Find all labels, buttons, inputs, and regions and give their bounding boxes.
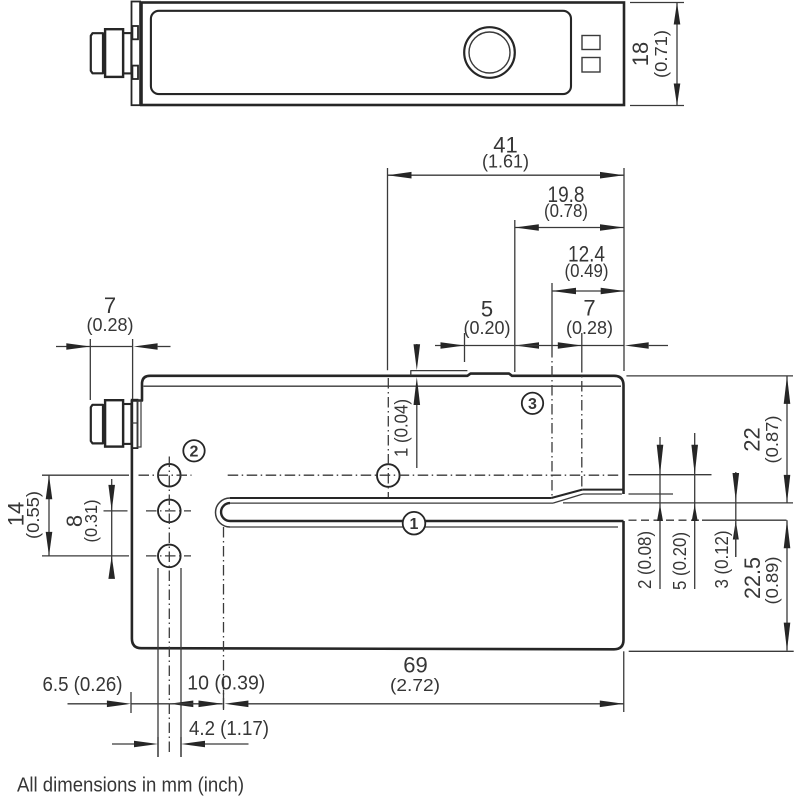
slot bottom extension line right <box>629 519 703 521</box>
dimension 8: line <box>111 479 113 579</box>
slot: inner bottom edge <box>230 520 624 522</box>
dimension 7 top: right outside arrowhead <box>625 342 649 349</box>
extension: body left edge down <box>130 692 132 713</box>
svg-text:(0.55): (0.55) <box>23 491 43 539</box>
svg-text:(1.61): (1.61) <box>482 151 529 172</box>
dimension 6.5: right arrowhead <box>169 701 193 708</box>
body top extension line right <box>626 375 793 377</box>
dimension 6.5 (0.26): line <box>68 703 108 705</box>
dimension 18 (0.71): dimension line <box>676 3 678 106</box>
dimension 5 (0.20) top: tick left <box>464 333 466 362</box>
dimension 41 line <box>388 174 625 176</box>
slot mouth: outer chamfer diagonal <box>551 490 582 498</box>
dimension 7 (0.28) left: line <box>56 346 90 348</box>
svg-text:(0.71): (0.71) <box>651 30 671 78</box>
top view: lens ring inner <box>469 32 510 73</box>
dimension 3: down arrowhead <box>733 473 740 501</box>
side view: top chamfer line <box>144 385 622 387</box>
dimension 12.4 left arrowhead <box>552 288 576 295</box>
svg-text:10 (0.39): 10 (0.39) <box>187 673 265 695</box>
side view: M8 connector collar <box>123 404 131 444</box>
dimension 12.4 right arrowhead <box>601 288 625 295</box>
svg-text:5 (0.20): 5 (0.20) <box>669 532 690 590</box>
dimension 12.4 extension line (dash-dot below) <box>551 283 553 347</box>
top view: indicator LED square upper <box>582 36 600 50</box>
horizontal centerline crosshair hole upper left <box>139 474 192 476</box>
dimension 7 left: tick left <box>89 339 91 400</box>
slot: rounded left end inner <box>221 503 230 521</box>
upper arm bottom outer edge (right) <box>582 489 623 491</box>
svg-text:(0.28): (0.28) <box>566 317 613 338</box>
centerline crosshair hole middle left <box>146 510 191 512</box>
dimension 5 right: down arrowhead <box>691 445 698 475</box>
extension: slot end dash-dot down <box>223 527 225 710</box>
dimension 22.5: top arrowhead <box>784 520 791 548</box>
svg-text:(0.20): (0.20) <box>464 317 511 338</box>
dimension 19.8 right arrowhead <box>600 224 624 231</box>
side view: M8 connector nut body <box>105 400 123 446</box>
side view: end plate strip <box>132 400 138 448</box>
mounting hole lower left <box>158 545 181 568</box>
dimension 41 right arrowhead <box>600 172 624 179</box>
dimension 7 left: right arrowhead <box>134 343 158 350</box>
dimension 22: bottom arrowhead <box>784 475 791 503</box>
dimension 14: extension line bottom <box>42 555 129 557</box>
dimension 2 (0.08): line <box>659 437 661 589</box>
svg-text:(0.31): (0.31) <box>81 500 101 543</box>
svg-text:3: 3 <box>528 396 537 413</box>
top view: inner face rounded rectangle <box>151 11 571 94</box>
mounting hole middle left <box>158 500 181 523</box>
dimension 18: bottom arrowhead <box>674 84 681 106</box>
upper arm bottom inner edge (right) <box>583 493 622 495</box>
svg-text:(0.49): (0.49) <box>565 260 609 281</box>
dimension 41 left arrowhead <box>388 172 412 179</box>
slot: outer bottom edge <box>230 526 618 528</box>
top view: M8 connector collar <box>123 33 131 73</box>
slot: outer top edge <box>230 497 551 499</box>
dimension 4.2: right arrowhead <box>181 741 205 748</box>
dimension 4.2: left arrowhead <box>134 741 158 748</box>
side view: M8 connector tip piece <box>91 405 103 444</box>
vertical centerline through left holes <box>168 457 170 753</box>
dimension 14: extension line top <box>42 474 129 476</box>
dimension 6.5: left arrowhead <box>107 701 131 708</box>
dimension 5 (0.20) right: line <box>694 433 696 589</box>
dimension 2: down arrowhead <box>657 445 664 475</box>
mounting hole center <box>377 464 400 487</box>
dimension 19.8 line <box>515 227 624 229</box>
dimension 4.2 (1.17): ticks <box>157 737 159 757</box>
extension: body right edge down <box>623 651 625 712</box>
slot: inner top edge <box>230 502 553 504</box>
svg-text:18: 18 <box>628 42 653 66</box>
dimension 1: up arrowhead <box>414 377 421 405</box>
dimension 69: left arrowhead <box>224 701 248 708</box>
dimension 10: tick at slot end <box>223 690 225 710</box>
dimension 8: upper outside arrowhead <box>108 485 115 511</box>
dimension 14: top arrowhead <box>46 475 53 499</box>
dimension 7 (0.28) top right: tick <box>581 333 583 362</box>
body bottom extension line right <box>629 650 794 652</box>
svg-text:2: 2 <box>190 444 199 461</box>
side view: main fork body outline <box>150 374 624 494</box>
dimension 5 right: up arrowhead <box>692 505 698 522</box>
extension: hole left edge <box>157 568 159 757</box>
dimension 4.2 (1.17): line <box>112 743 134 745</box>
mounting hole upper left <box>158 464 181 487</box>
slot: rounded left end outer <box>216 498 231 527</box>
dimension 22 (0.87): line <box>786 376 788 503</box>
dimension 22: top arrowhead <box>784 376 791 404</box>
dimension 22.5 (0.89): line <box>786 520 788 650</box>
dimension 69: right arrowhead <box>600 701 624 708</box>
dimension 19.8 left arrowhead <box>515 224 539 231</box>
top view: indicator LED square lower <box>582 58 600 73</box>
label circle 3 <box>522 393 543 414</box>
dimension 5 top: right outside arrowhead <box>515 342 539 349</box>
dimension 2: up arrowhead <box>657 505 663 522</box>
label circle 1 <box>403 512 426 535</box>
svg-text:1: 1 <box>410 516 419 533</box>
svg-text:6.5 (0.26): 6.5 (0.26) <box>43 674 123 696</box>
hole centerline extension right <box>629 474 712 476</box>
top view: connector end plate <box>132 2 141 106</box>
horizontal centerline through hole row <box>228 474 619 476</box>
side view: body outline left/bottom <box>132 376 624 650</box>
dimension 12.4 line <box>552 290 625 292</box>
dimension 18 (0.71): extension lines <box>630 2 684 4</box>
arm inner edge extension right <box>629 493 674 495</box>
dimension 19.8 extension line <box>514 220 516 372</box>
dimension 1 (0.04): upper arrow <box>416 344 418 348</box>
slot top extension line right <box>563 502 793 504</box>
svg-text:(0.89): (0.89) <box>762 557 782 605</box>
dimension 5 top: left outside arrowhead <box>441 342 465 349</box>
dimension 41/19.8/12.4/7 extension line right <box>623 168 625 371</box>
svg-text:69: 69 <box>403 652 427 677</box>
svg-text:3 (0.12): 3 (0.12) <box>711 531 732 589</box>
dimension 7 left: left arrowhead <box>66 343 90 350</box>
vertical centerline center hole <box>387 378 389 497</box>
dimension 7 left: tick right <box>132 339 134 399</box>
top view: plate tab lower <box>132 66 138 79</box>
slot mouth: inner chamfer diagonal <box>553 494 583 503</box>
top view: plate tab upper <box>132 26 138 39</box>
svg-text:All dimensions in mm (inch): All dimensions in mm (inch) <box>17 773 244 796</box>
dimension 8: lower outside arrowhead <box>108 556 115 579</box>
dimension 22.5: bottom arrowhead <box>784 623 791 651</box>
svg-text:4.2 (1.17): 4.2 (1.17) <box>189 718 269 740</box>
dash-dot extension below 7-tick <box>581 362 583 490</box>
svg-text:(0.28): (0.28) <box>87 314 134 335</box>
side view: plate inner strip <box>138 401 142 447</box>
label circle 2 <box>183 440 204 461</box>
dimension 10 (0.39): line and arrowheads <box>169 703 222 705</box>
dimension 18: top arrowhead <box>674 3 681 25</box>
dimension 7 top: left outside arrowhead <box>558 342 582 349</box>
dimension 1: down arrowhead <box>414 344 421 370</box>
extension: hole right edge <box>180 568 182 757</box>
dimension 41 extension line left <box>387 168 389 370</box>
svg-text:22: 22 <box>739 427 764 451</box>
svg-text:(0.87): (0.87) <box>762 416 782 464</box>
top view: M8 connector nut body <box>105 29 123 77</box>
centerline crosshair hole lower left <box>146 555 191 557</box>
dimension 14: line <box>48 475 50 556</box>
dimension 3: up arrowhead <box>733 521 739 540</box>
svg-text:(0.78): (0.78) <box>544 200 588 221</box>
dimension 8: extension line <box>104 510 128 512</box>
dimension 5 (0.20) top: line and arrowheads <box>435 345 465 347</box>
svg-text:(2.72): (2.72) <box>390 675 440 695</box>
dimension 14: bottom arrowhead <box>46 532 53 556</box>
dimension 10: right arrowhead <box>199 701 223 708</box>
dimension 3 (0.12): line <box>735 472 737 557</box>
svg-text:1 (0.04): 1 (0.04) <box>391 399 412 457</box>
top view: housing body <box>142 3 625 106</box>
side view: end plate strip divider <box>132 422 138 424</box>
top view: lens ring outer <box>464 27 515 78</box>
svg-text:2 (0.08): 2 (0.08) <box>634 531 655 589</box>
top view: M8 connector tip piece <box>91 33 103 73</box>
side view: 1mm lip line on top edge <box>411 371 468 376</box>
